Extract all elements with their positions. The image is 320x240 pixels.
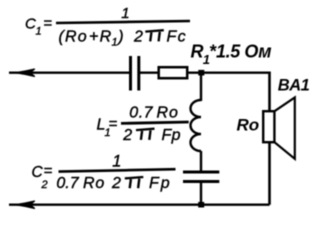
arrow (output to amplifier, top)	[15, 69, 35, 77]
inductor L1	[191, 100, 202, 151]
svg-text:C: C	[25, 16, 36, 33]
svg-text:Ro: Ro	[157, 105, 179, 122]
svg-text:+R: +R	[89, 28, 113, 45]
svg-text:1: 1	[121, 5, 129, 22]
wire vertical branch upper	[200, 75, 202, 101]
wire top horizontal	[9, 71, 270, 73]
svg-text:Ro: Ro	[83, 175, 105, 192]
capacitor C1	[131, 56, 139, 91]
svg-text:Fp: Fp	[149, 175, 172, 192]
svg-text:2: 2	[133, 28, 143, 45]
wire C2 to bottom	[200, 183, 202, 205]
svg-text:=: =	[43, 15, 52, 32]
svg-text:(Ro: (Ro	[59, 28, 88, 45]
wire right vertical	[268, 72, 271, 205]
formula C2 = 1/(0.7Ro 2pi Fp)	[32, 152, 176, 192]
label R1* 1.5 Om	[191, 41, 272, 66]
svg-text:Ro: Ro	[237, 116, 260, 135]
node junction bottom	[198, 202, 204, 208]
svg-text:1: 1	[36, 26, 42, 38]
svg-text:=: =	[44, 163, 53, 180]
svg-text:2: 2	[122, 127, 132, 144]
svg-text:0.7: 0.7	[129, 105, 153, 122]
svg-text:1: 1	[112, 152, 121, 170]
svg-text:2: 2	[111, 175, 121, 192]
resistor R1	[159, 67, 188, 78]
svg-text:0.7: 0.7	[56, 175, 79, 192]
wire bottom horizontal	[9, 203, 270, 205]
formula C1 = 1/((Ro+R1) 2pi Fc)	[25, 5, 190, 49]
capacitor C2	[183, 172, 219, 182]
svg-text:R: R	[191, 41, 204, 61]
wire inductor to C2	[200, 151, 202, 171]
svg-text:1.5 Ом: 1.5 Ом	[216, 41, 271, 61]
formula L1 = 0.7Ro/(2pi Fp)	[97, 105, 189, 144]
speaker BA1 body	[263, 111, 274, 142]
node junction top	[198, 70, 204, 76]
svg-text:2: 2	[41, 179, 48, 191]
svg-text:BA1: BA1	[278, 76, 310, 94]
arrow (output to amplifier, bottom)	[15, 201, 35, 209]
svg-text:=: =	[109, 115, 118, 132]
svg-text:Fc: Fc	[167, 28, 188, 45]
speaker BA1 cone	[275, 98, 295, 159]
svg-text:): )	[116, 28, 123, 45]
svg-text:1: 1	[112, 37, 118, 49]
svg-text:Fp: Fp	[162, 127, 181, 144]
